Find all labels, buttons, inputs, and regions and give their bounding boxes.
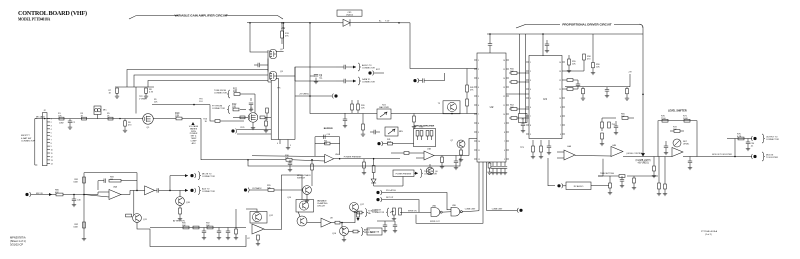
wire Q11 base	[133, 190, 135, 215]
svg-text:10K: 10K	[175, 115, 180, 118]
resistor R56	[567, 79, 573, 82]
svg-text:11: 11	[51, 153, 53, 155]
svg-text:POWER PRESENT: POWER PRESENT	[344, 157, 362, 159]
wire noninv input	[292, 160, 325, 161]
resistor R63	[601, 133, 604, 139]
rail bottom pins	[279, 140, 281, 145]
svg-text:4.7K: 4.7K	[737, 136, 742, 138]
wire rail bottom	[271, 139, 295, 141]
svg-text:+9V (REG): +9V (REG)	[637, 163, 649, 165]
resistor R52	[511, 108, 517, 111]
svg-text:1C4: 1C4	[199, 101, 202, 103]
svg-text:13: 13	[559, 71, 561, 73]
input bullet forward	[377, 142, 380, 145]
wire U4A inputs	[557, 151, 564, 153]
ground Q5	[252, 122, 254, 126]
svg-text:10: 10	[559, 98, 561, 100]
resistor ladder RN1	[416, 131, 419, 137]
pot R24 block	[385, 127, 398, 136]
gate U9B	[451, 207, 460, 216]
op-amp U4A	[564, 150, 575, 160]
U3 left pins	[526, 61, 529, 63]
svg-text:5: 5	[478, 96, 479, 98]
wire tap down	[210, 105, 215, 121]
resistor R48	[488, 163, 491, 168]
svg-text:CONNECTOR: CONNECTOR	[202, 191, 215, 193]
svg-text:AUX TO: AUX TO	[202, 187, 210, 190]
svg-text:1: 1	[51, 119, 52, 121]
wire buf out	[155, 189, 157, 191]
transistor Q15	[297, 216, 307, 226]
arrow mic	[49, 193, 52, 196]
svg-text:1 VRMS: 1 VRMS	[139, 99, 147, 101]
svg-text:CONNECTOR: CONNECTOR	[202, 176, 215, 178]
resistor R96b	[353, 230, 358, 233]
svg-text:10K: 10K	[285, 158, 289, 160]
resistor R11	[234, 93, 240, 96]
input bullet MIC	[25, 193, 28, 196]
capacitor C32	[664, 145, 668, 147]
junction on climb feed	[642, 94, 644, 96]
jack TP1	[94, 106, 101, 115]
capacitor C16	[289, 160, 291, 163]
junction	[281, 22, 283, 24]
brace mic2	[198, 186, 201, 194]
svg-text:9: 9	[504, 123, 505, 125]
section boundary PROPORTIONAL DRIVER CIRCUIT	[516, 24, 526, 28]
capacitor C12	[343, 118, 347, 120]
svg-text:CONTROL BOARD (VHF): CONTROL BOARD (VHF)	[18, 10, 87, 17]
junction	[247, 159, 249, 161]
wire upper feed down	[242, 93, 255, 95]
wire U2 pin down 3	[485, 162, 487, 210]
resistor R77b	[609, 176, 611, 183]
svg-text:MODEL PTTD4018A: MODEL PTTD4018A	[18, 17, 51, 21]
wire climb limit out	[486, 209, 517, 211]
resistor R64	[608, 122, 611, 128]
resistor R31	[315, 143, 325, 145]
svg-text:CUTBACK: CUTBACK	[252, 187, 262, 190]
junction	[309, 22, 311, 24]
wire gate rail	[267, 50, 269, 82]
wire climb limit	[462, 210, 479, 213]
svg-text:13: 13	[51, 160, 53, 162]
arrow into node	[641, 153, 645, 156]
wire upper output	[727, 138, 752, 140]
svg-text:9: 9	[51, 146, 52, 148]
svg-text:9: 9	[560, 107, 561, 109]
wire Q13 emitter	[306, 194, 308, 199]
svg-text:SET UP: SET UP	[386, 197, 394, 199]
wire power present	[374, 158, 400, 160]
brace to connector 2	[358, 77, 361, 85]
wire gate link	[442, 211, 451, 213]
resistor R71	[684, 119, 690, 122]
svg-text:4.7K: 4.7K	[149, 92, 154, 94]
buffer amp U6B	[145, 186, 155, 195]
svg-text:8: 8	[504, 132, 505, 134]
capacitor C10	[343, 65, 345, 69]
svg-text:PROPORTIONAL DRIVER CIRCUIT: PROPORTIONAL DRIVER CIRCUIT	[562, 22, 611, 26]
wire inner loop	[98, 180, 104, 182]
wire q16 box	[235, 209, 237, 228]
transistor Q9 box	[443, 101, 460, 114]
svg-text:MIN CUTBACK: MIN CUTBACK	[297, 174, 311, 177]
svg-text:PTT/VHF-4018-A: PTT/VHF-4018-A	[701, 230, 718, 233]
U3 right pins	[562, 61, 565, 63]
wire main bus	[35, 118, 143, 120]
svg-text:4: 4	[478, 87, 479, 89]
svg-text:CNTL: CNTL	[240, 127, 245, 129]
resistor R39	[363, 159, 365, 162]
wire inner rail	[276, 78, 279, 139]
resistor R98	[257, 235, 260, 240]
svg-text:7: 7	[560, 125, 561, 127]
svg-text:CONNECTOR: CONNECTOR	[21, 141, 35, 143]
wire bias row	[565, 86, 630, 88]
resistor R10	[176, 117, 182, 120]
svg-text:CONNECTOR: CONNECTOR	[372, 212, 385, 214]
transistor Q11	[133, 214, 142, 223]
wire U2-U3 link	[506, 93, 529, 95]
resistor R77	[633, 178, 636, 183]
wire rx audio drop	[548, 158, 555, 186]
wire to Q16	[341, 223, 343, 229]
note voltage annotation	[191, 122, 194, 125]
resistor R75	[738, 137, 744, 140]
wire err up to U2	[469, 139, 477, 156]
transistor Q14	[299, 201, 308, 210]
resistor R95	[268, 189, 274, 192]
svg-text:12: 12	[503, 96, 505, 98]
svg-text:DATA TO: DATA TO	[362, 78, 371, 81]
resistor R97	[357, 212, 360, 217]
wire U3 feed 2	[525, 34, 527, 123]
wire main output	[697, 156, 752, 158]
resistor R70	[662, 119, 668, 122]
wire U3 feed 1	[519, 34, 521, 114]
svg-text:9: 9	[530, 134, 531, 136]
ground bottom rail	[83, 237, 85, 239]
svg-text:(LEVEL CONTROL): (LEVEL CONTROL)	[627, 153, 644, 155]
svg-text:10K: 10K	[673, 129, 677, 131]
svg-text:9: 9	[478, 132, 479, 134]
brace from connector 2	[227, 106, 230, 114]
svg-text:3: 3	[51, 126, 52, 128]
svg-text:SPKR OUT: SPKR OUT	[430, 221, 441, 223]
wire routing down	[201, 119, 248, 160]
svg-text:3/31/02-CP: 3/31/02-CP	[10, 243, 23, 247]
capacitor C18	[323, 135, 325, 139]
junction	[249, 22, 251, 24]
svg-text:MPN3978T/A: MPN3978T/A	[10, 236, 26, 240]
connector J2	[42, 113, 47, 166]
svg-text:RN1: RN1	[420, 126, 424, 128]
wire supply tap	[466, 69, 468, 86]
svg-text:11: 11	[559, 89, 561, 91]
svg-text:RX LATCH: RX LATCH	[386, 189, 396, 192]
wire U4A out	[575, 155, 611, 158]
output bullet 1	[753, 137, 756, 140]
op-amp U1A	[325, 154, 334, 163]
capacitor C27	[547, 145, 551, 147]
svg-text:3: 3	[478, 78, 479, 80]
resistor R1 inline	[59, 117, 64, 120]
wire U2 pin down 2	[482, 162, 484, 211]
brace output 2	[762, 152, 765, 161]
svg-text:AUDIO TO: AUDIO TO	[362, 64, 372, 67]
capacitor C11	[343, 79, 345, 83]
capacitor C2	[69, 119, 71, 121]
bullet climb limit	[519, 209, 522, 212]
input bullet bias	[231, 129, 234, 132]
svg-text:100K: 100K	[73, 227, 78, 229]
svg-text:10: 10	[478, 141, 480, 143]
wire pa row	[377, 220, 395, 222]
wire inv input	[252, 155, 325, 158]
capacitor C50	[384, 221, 386, 225]
svg-text:10K: 10K	[621, 116, 625, 118]
resistor R86	[126, 214, 132, 217]
svg-text:U4B: U4B	[612, 145, 617, 147]
wire feedback top	[84, 172, 137, 174]
svg-text:U4A: U4A	[567, 145, 572, 148]
capacitor C23	[521, 123, 525, 125]
svg-text:8: 8	[51, 143, 52, 145]
pot R22 block	[377, 109, 391, 119]
svg-text:4: 4	[530, 89, 531, 91]
wire err input	[391, 152, 404, 154]
wire cutback	[250, 189, 269, 191]
svg-text:TP5: TP5	[277, 88, 280, 90]
svg-text:10: 10	[51, 150, 53, 152]
transistor Q17	[350, 203, 359, 212]
svg-text:3: 3	[530, 80, 531, 82]
IC U3	[529, 56, 562, 139]
capacitor C45	[203, 228, 205, 232]
svg-text:8: 8	[560, 116, 561, 118]
svg-text:100K: 100K	[387, 141, 392, 143]
capacitor C33	[688, 160, 692, 162]
resistor R57	[567, 88, 573, 91]
capacitor C28	[606, 87, 608, 90]
capacitor C20	[454, 160, 458, 162]
svg-text:SPKR ON: SPKR ON	[408, 210, 417, 212]
wire drop to Q2	[250, 23, 268, 52]
svg-text:(2 of 2): (2 of 2)	[705, 234, 712, 236]
wire attn chain	[150, 227, 246, 229]
svg-text:VARIABLE: VARIABLE	[317, 200, 327, 203]
svg-text:VARIABLE GAIN AMPLIFIER CIRCUI: VARIABLE GAIN AMPLIFIER CIRCUIT	[174, 13, 227, 17]
wire gain-set bus	[115, 86, 154, 88]
boxed label RX AUDIO	[566, 182, 591, 190]
svg-text:CLAMPING: CLAMPING	[317, 202, 328, 205]
transistor Q6	[426, 167, 434, 175]
wire spkr out	[416, 211, 483, 224]
svg-text:7: 7	[530, 116, 531, 118]
brace spk	[386, 208, 389, 217]
wire feedback drop	[136, 173, 138, 191]
svg-text:CONNECTOR: CONNECTOR	[214, 93, 227, 95]
svg-text:POWER PRESENT: POWER PRESENT	[396, 173, 413, 175]
resistor R17	[240, 116, 245, 119]
svg-text:2: 2	[530, 71, 531, 73]
svg-text:AUDIO PA: AUDIO PA	[370, 231, 380, 234]
resistor R49b	[466, 92, 468, 99]
wire bus to R10	[153, 118, 176, 120]
svg-text:CONNECTOR: CONNECTOR	[766, 139, 779, 141]
ground Q16	[343, 236, 345, 239]
section boundary VARIABLE GAIN AMPLIFIER CIRCUIT	[129, 15, 137, 19]
wire U2 pin down 1	[478, 162, 480, 211]
wire opamp inputs	[98, 191, 109, 193]
wire to node	[63, 194, 98, 196]
arrow out 2	[353, 80, 356, 83]
wire Q13 collector	[311, 170, 313, 186]
resistor R15 in U10	[266, 108, 269, 113]
U2 left pins	[474, 59, 477, 61]
wire gate feed	[135, 87, 137, 114]
transistor Q3	[270, 72, 277, 81]
resistor R90	[183, 226, 189, 229]
resistor R21	[357, 104, 360, 110]
resistor R40a	[404, 152, 409, 155]
wire top bus	[487, 33, 643, 35]
transistor Q9	[447, 102, 456, 111]
svg-text:MIN: MIN	[399, 131, 403, 133]
IC U2	[477, 53, 506, 162]
brace pa2	[361, 228, 364, 236]
svg-text:10K: 10K	[510, 71, 514, 73]
wire U7 out	[264, 229, 282, 231]
svg-text:SWITCH: SWITCH	[297, 177, 305, 179]
arrow to connector	[415, 172, 418, 175]
resistor R61	[540, 146, 543, 152]
wire tap line	[152, 104, 210, 106]
resistor R59	[592, 63, 595, 68]
wire time setting	[598, 175, 619, 177]
svg-text:13: 13	[503, 87, 505, 89]
capacitor C34	[746, 141, 750, 143]
connector bracket	[34, 119, 36, 165]
brace to connector 1	[358, 63, 361, 71]
resistor R80	[56, 193, 63, 196]
resistor R51	[511, 81, 517, 84]
wire supply to U-block	[351, 22, 399, 24]
svg-text:100: 100	[232, 106, 237, 109]
op-amp U4B	[611, 147, 623, 157]
wire to bias column	[309, 23, 311, 96]
wire nested line 2	[134, 75, 268, 87]
resistor R76	[619, 175, 625, 178]
transistor Q12 box	[250, 212, 267, 224]
resistor R41 inline	[388, 142, 393, 145]
capacitor C9	[310, 75, 315, 77]
svg-text:14: 14	[51, 163, 53, 165]
resistor R65	[622, 117, 628, 120]
brace from connector 1	[227, 90, 230, 98]
capacitor C31	[621, 176, 623, 180]
op-amp U5	[672, 148, 683, 157]
op-amp U7	[252, 224, 264, 234]
svg-text:BUFFER: BUFFER	[324, 128, 333, 130]
boxed label AUDIO PA	[367, 228, 382, 235]
wire to Q13	[274, 189, 303, 191]
svg-text:5: 5	[530, 98, 531, 100]
speaker component S1	[393, 208, 396, 215]
speaker component S2	[399, 208, 402, 215]
svg-text:11: 11	[503, 105, 505, 107]
output bullet 2	[753, 155, 756, 158]
junction node	[119, 118, 120, 119]
buffer feedback loop	[315, 136, 340, 138]
svg-text:MIC: MIC	[103, 110, 107, 112]
svg-text:U3: U3	[543, 97, 547, 101]
capacitor C55	[422, 78, 424, 82]
resistor R53	[511, 117, 517, 120]
brace pa	[365, 209, 368, 217]
svg-text:(Sheet 1 of 1): (Sheet 1 of 1)	[10, 239, 26, 243]
svg-text:14: 14	[559, 62, 561, 64]
resistor R38	[413, 116, 416, 122]
svg-text:CONNECTOR: CONNECTOR	[212, 108, 225, 110]
svg-text:8: 8	[478, 123, 479, 125]
resistor R18	[260, 116, 265, 119]
capacitor C41	[103, 179, 105, 183]
svg-text:100: 100	[233, 90, 238, 93]
capacitor C29	[545, 43, 549, 45]
wire mic in	[31, 194, 56, 196]
wire FET out	[276, 67, 336, 76]
resistor R81	[83, 177, 86, 183]
wire split	[169, 176, 171, 191]
wire err input2	[416, 157, 424, 159]
wire down from U4B	[602, 159, 604, 176]
arrow out 1	[353, 66, 356, 69]
capacitor C5 gate	[257, 63, 259, 67]
capacitor C42	[156, 188, 158, 192]
svg-text:U2: U2	[490, 105, 494, 109]
wire opamp bias	[602, 117, 616, 119]
svg-text:14: 14	[503, 78, 505, 80]
op-amp U6A	[109, 190, 121, 200]
svg-text:C18: C18	[327, 134, 330, 136]
svg-text:7: 7	[51, 139, 52, 141]
resistor R16	[215, 120, 220, 123]
svg-text:CONNECTOR: CONNECTOR	[362, 68, 375, 70]
resistor R37 drop	[362, 114, 364, 125]
wire nested line 1	[127, 70, 268, 88]
error ladder box	[414, 128, 436, 146]
boxed label POWER PRESENT	[393, 170, 414, 177]
svg-text:MIC/PTT: MIC/PTT	[21, 135, 30, 137]
wire source rail	[270, 82, 272, 140]
svg-text:5: 5	[290, 145, 291, 147]
resistor R40	[373, 159, 375, 166]
resistor R91	[193, 226, 199, 229]
diode CR1	[343, 19, 350, 26]
resistor R6 hanging	[124, 121, 127, 126]
svg-text:15: 15	[503, 69, 505, 71]
svg-text:CLIMB LIMIT: CLIMB LIMIT	[492, 208, 503, 210]
capacitor C40	[73, 195, 75, 200]
svg-text:MIC JACK: MIC JACK	[36, 115, 46, 118]
capacitor C46	[218, 228, 220, 232]
svg-text:X1: X1	[522, 119, 524, 121]
wire to buffer input	[248, 159, 286, 161]
svg-text:4: 4	[277, 143, 278, 145]
svg-text:8: 8	[530, 125, 531, 127]
